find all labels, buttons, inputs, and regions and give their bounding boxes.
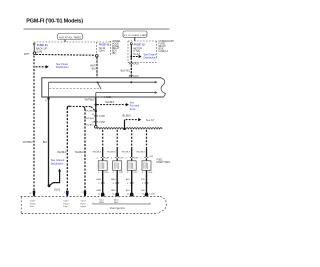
svg-text:(B1): (B1) xyxy=(112,53,117,55)
svg-text:Dist.: Dist. xyxy=(63,205,68,208)
dashed wire B branch xyxy=(83,107,85,110)
svg-text:2: 2 xyxy=(140,158,142,160)
svg-text:YEL/BLK: YEL/BLK xyxy=(85,125,94,127)
svg-text:BLK: BLK xyxy=(92,69,97,71)
terminal circle at top of injector bus xyxy=(95,126,98,129)
connector band right bulge xyxy=(158,196,166,213)
blue reference See Fuel and Emissions System xyxy=(130,101,140,111)
svg-text:4: 4 xyxy=(127,172,129,174)
injector No.1 xyxy=(98,161,107,171)
under-dash fuse/relay box label xyxy=(159,40,175,53)
arrow to See Power Distribution (left) xyxy=(36,63,70,69)
svg-text:Power: Power xyxy=(63,202,69,205)
svg-text:YEL/BLK: YEL/BLK xyxy=(136,151,145,153)
injector wire color labels YEL/BLK xyxy=(92,151,145,153)
relay coil leg (inner vertical) xyxy=(48,82,50,96)
svg-text:YEL/BLK: YEL/BLK xyxy=(122,116,132,118)
torn edge squiggle xyxy=(161,78,166,97)
svg-text:C2P: C2P xyxy=(133,172,138,174)
svg-text:(10A): (10A) xyxy=(36,50,42,53)
arrowhead lower relay wire xyxy=(155,91,158,94)
wire WHT/BLK from fuse box node down to relay xyxy=(96,57,98,78)
svg-text:BLK: BLK xyxy=(43,142,48,144)
svg-text:4: 4 xyxy=(142,172,144,174)
svg-text:FUSE 13: FUSE 13 xyxy=(134,43,145,47)
connector ticks on fuse 13 wire xyxy=(129,63,133,75)
dashed arrow wire to See Fuel and Emissions xyxy=(97,104,126,106)
injector No.4 xyxy=(142,161,151,171)
svg-text:C2P: C2P xyxy=(105,158,110,160)
svg-text:C2P: C2P xyxy=(149,156,154,158)
svg-text:FUSE 13: FUSE 13 xyxy=(159,51,169,53)
dashed arrow wire 2 xyxy=(126,119,139,121)
connector terminal wire A xyxy=(66,191,68,197)
svg-text:Dist.: Dist. xyxy=(30,205,35,208)
junction dot fuse13 wire to relay wire xyxy=(130,81,132,83)
ground G101 symbol and wire xyxy=(48,169,62,192)
svg-text:C2P: C2P xyxy=(148,172,153,174)
svg-text:12: 12 xyxy=(98,193,101,195)
svg-text:RED: RED xyxy=(111,190,116,192)
svg-text:WHT/BLK: WHT/BLK xyxy=(84,118,94,120)
svg-text:YEL/BLK: YEL/BLK xyxy=(57,152,67,154)
junction dot wire A xyxy=(95,110,97,112)
svg-text:13: 13 xyxy=(141,193,144,195)
svg-text:Fuel injectors: Fuel injectors xyxy=(110,207,126,210)
svg-text:2: 2 xyxy=(81,192,83,194)
relay switch contact xyxy=(97,81,99,83)
ECM terminal bars for injector wires xyxy=(101,193,148,197)
svg-text:WHT: WHT xyxy=(24,54,30,56)
connector band bottom dashed line xyxy=(21,213,158,215)
connector label left xyxy=(30,201,36,208)
svg-text:YEL/BLK: YEL/BLK xyxy=(107,151,116,153)
title underline rule xyxy=(24,29,170,30)
svg-text:Inject: Inject xyxy=(81,205,87,208)
svg-text:HOT IN ON AND START: HOT IN ON AND START xyxy=(123,34,148,37)
svg-text:WHT/: WHT/ xyxy=(90,66,96,68)
fuse F2 (FUSE 13) enclosure (under-dash fuse/relay box, dashed) xyxy=(128,41,157,63)
svg-text:YEL: YEL xyxy=(141,179,146,181)
svg-text:C417: C417 xyxy=(81,201,87,203)
svg-text:WHT/BLK: WHT/BLK xyxy=(85,100,96,102)
svg-text:HOT AT ALL TIMES: HOT AT ALL TIMES xyxy=(59,36,81,39)
arrow to See Power Distribution (fuse 13) xyxy=(133,53,157,59)
svg-text:C2P: C2P xyxy=(134,158,139,160)
connector terminal for left wire xyxy=(33,191,35,197)
svg-text:PGM-FI ('00-'01 Models): PGM-FI ('00-'01 Models) xyxy=(26,19,83,25)
svg-text:Fuel/: Fuel/ xyxy=(81,203,86,205)
svg-text:C2P: C2P xyxy=(104,172,109,174)
tap up to arrow 2 xyxy=(124,120,126,129)
svg-text:4: 4 xyxy=(113,172,115,174)
fuse F2 (FUSE 13) element xyxy=(130,43,132,58)
fuse F1 (FUSE 41) xyxy=(33,43,36,54)
svg-text:YEL/BLK: YEL/BLK xyxy=(92,151,101,153)
svg-text:2: 2 xyxy=(142,183,144,185)
svg-text:BLU: BLU xyxy=(126,190,131,192)
injector wire into box xyxy=(103,158,147,161)
svg-text:UNDER-DASH: UNDER-DASH xyxy=(159,40,175,43)
injector No.2 xyxy=(113,161,122,171)
svg-text:C102: C102 xyxy=(150,194,156,196)
svg-text:2: 2 xyxy=(125,158,127,160)
svg-text:Distribution: Distribution xyxy=(56,66,69,69)
ECM connector bar (gray) xyxy=(93,203,150,204)
injector bottom connector labels (2P) xyxy=(98,172,153,174)
svg-text:4: 4 xyxy=(45,100,47,102)
PGM-FI main relay box outline with torn right edge xyxy=(42,78,164,97)
dashed wire A corner (to junction connector) xyxy=(67,106,70,108)
wire from fuse 13 down to relay xyxy=(130,58,132,78)
injector top connectors (2P) xyxy=(101,157,149,159)
svg-text:4 C421: 4 C421 xyxy=(104,97,112,99)
svg-text:2: 2 xyxy=(96,158,98,160)
svg-text:2 C5P: 2 C5P xyxy=(99,122,106,124)
connector C410 on fuse 13 wire xyxy=(128,63,139,65)
injector output wires down xyxy=(103,170,147,192)
svg-text:C2P: C2P xyxy=(119,158,124,160)
relay linkage (gray dashed) xyxy=(50,88,101,90)
node terminal circle at fuse box output xyxy=(96,55,99,58)
svg-text:YEL: YEL xyxy=(141,190,146,192)
injector drop wires (dashed) xyxy=(103,130,147,149)
wire label column between B and main wire xyxy=(84,110,95,126)
wire from relay coil to ground (BLK) xyxy=(47,97,49,185)
connector terminal wire B xyxy=(84,191,86,197)
svg-text:YEL/BLK: YEL/BLK xyxy=(75,152,85,154)
blue pin refs at ECM connector xyxy=(98,193,145,195)
connector band left edge xyxy=(20,197,22,214)
svg-text:C417: C417 xyxy=(30,201,36,203)
svg-text:2 C5P: 2 C5P xyxy=(99,116,106,118)
injector No.3 xyxy=(127,161,136,171)
relay output wire (YEL/BLK) below relay xyxy=(95,97,97,126)
under-hood fuse/relay box label xyxy=(112,41,121,55)
blue reference See Ground Distribution xyxy=(51,159,65,165)
dashed wire A horizontal xyxy=(70,105,92,107)
svg-text:C417: C417 xyxy=(63,201,69,203)
svg-text:RELAY: RELAY xyxy=(159,45,167,48)
svg-text:See A/T: See A/T xyxy=(146,119,155,122)
svg-text:10: 10 xyxy=(127,193,130,195)
svg-text:G101: G101 xyxy=(54,188,61,191)
svg-text:Distribution: Distribution xyxy=(144,57,157,60)
svg-text:4: 4 xyxy=(64,192,66,194)
svg-text:22: 22 xyxy=(29,193,32,195)
injector top connector labels xyxy=(96,156,153,159)
svg-text:Emis.: Emis. xyxy=(130,108,136,111)
relay wire upper (to arrow) xyxy=(49,81,156,83)
svg-text:Distribution: Distribution xyxy=(51,162,64,165)
svg-text:BRN: BRN xyxy=(97,190,102,192)
junction dot arrow1 xyxy=(95,103,97,105)
svg-text:Power: Power xyxy=(30,202,36,205)
label box "HOT AT ALL TIMES" xyxy=(58,34,83,40)
relay wire lower (to arrow) xyxy=(96,92,156,94)
arrowhead upper relay wire xyxy=(155,81,158,84)
svg-text:(15A): (15A) xyxy=(99,50,105,53)
harness boundary dashed line (top of connector band) xyxy=(21,195,160,197)
inline connector 2 on main wire xyxy=(94,121,98,123)
injector supply bus (scalloped wire) xyxy=(97,128,162,129)
svg-text:2: 2 xyxy=(98,183,100,185)
injector output wire color labels lower xyxy=(97,190,146,192)
svg-text:BLU: BLU xyxy=(126,179,131,181)
connector label B xyxy=(81,201,87,208)
svg-text:4: 4 xyxy=(98,172,100,174)
svg-text:YEL/BLK: YEL/BLK xyxy=(105,102,115,104)
svg-text:2: 2 xyxy=(111,158,113,160)
under-hood fuse/relay box enclosure (dashed) xyxy=(34,41,111,55)
svg-text:FUSE 41: FUSE 41 xyxy=(37,43,48,47)
svg-text:BRN: BRN xyxy=(97,179,102,181)
wire stub from HOT box 2 to fuse box 2 xyxy=(134,37,136,41)
dashed wire A vertical xyxy=(66,108,68,192)
svg-text:2: 2 xyxy=(113,183,115,185)
connector label A xyxy=(63,201,69,208)
dashed wire W-LEFT (WHT/BLK) down left side xyxy=(33,56,35,192)
relay output leg down xyxy=(95,93,97,98)
svg-text:2: 2 xyxy=(127,183,129,185)
svg-text:YEL/BLK: YEL/BLK xyxy=(121,151,130,153)
dashed wire A diagonal into main wire xyxy=(91,107,95,111)
bold dashed wire from fuse 41 to node (fuse box output bus) xyxy=(36,54,94,57)
svg-text:C2P: C2P xyxy=(119,172,124,174)
svg-text:RED: RED xyxy=(111,179,116,181)
svg-text:WHT/BLK: WHT/BLK xyxy=(23,142,34,144)
fuel injectors component label xyxy=(157,158,171,164)
connector C131 on fuse 13 wire xyxy=(129,76,140,78)
wire stub from HOT box to fuse box xyxy=(64,40,66,43)
svg-text:C410: C410 xyxy=(133,63,139,65)
label box "HOT IN ON AND START" xyxy=(123,31,148,37)
inline connectors on injector output wires xyxy=(101,182,148,184)
svg-text:INJECTORS: INJECTORS xyxy=(157,161,171,164)
inline connector 1 on main wire xyxy=(94,115,98,117)
injector connector pin labels below band xyxy=(99,199,119,204)
svg-text:BLK/YEL: BLK/YEL xyxy=(121,71,131,73)
svg-text:YEL/BLK: YEL/BLK xyxy=(85,110,94,112)
svg-text:11: 11 xyxy=(112,193,115,195)
injector output wire color labels upper xyxy=(97,179,146,181)
svg-text:FUSE 42: FUSE 42 xyxy=(99,42,110,46)
